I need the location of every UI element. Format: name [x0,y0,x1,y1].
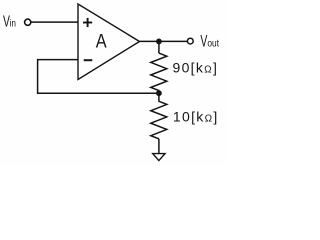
wire feedback node to op-amp inverting input [38,60,159,94]
op-amp inverting input marker (-) [84,59,93,61]
wire Vin terminal to op-amp non-inverting input [31,21,78,23]
wire output node to resistor R1 [158,41,160,53]
op-amp non-inverting input marker (+) [83,18,92,27]
wire op-amp output to Vout terminal [140,40,188,42]
op-amp A body [78,4,140,80]
node Vin terminal [25,19,31,25]
ground [153,154,165,161]
resistor R1 (feedback) [151,53,167,93]
svg-text:in: in [10,17,16,28]
junction feedback node [156,90,162,96]
label Vin [3,12,16,30]
node Vout terminal [187,38,193,44]
resistor R2 (to ground) [151,93,167,139]
svg-text:A: A [96,30,107,51]
label Vout [200,32,219,50]
wire resistor R2 to ground [158,139,160,154]
svg-text:out: out [207,37,219,49]
junction output node [156,39,162,45]
